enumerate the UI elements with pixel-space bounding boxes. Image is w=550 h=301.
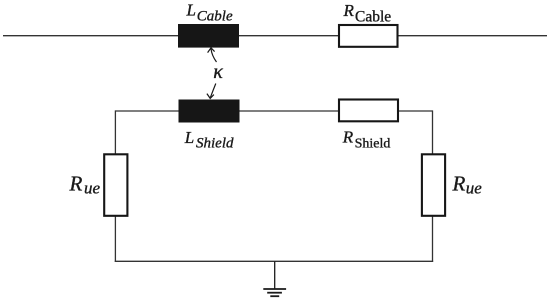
svg-text:Cable: Cable <box>355 9 391 26</box>
resistor R_Cable <box>339 25 398 47</box>
coupling arrow to L_Shield <box>207 84 216 99</box>
ground <box>263 261 286 296</box>
wire shield row left segment <box>115 110 178 112</box>
inductor L_Cable <box>178 24 239 48</box>
svg-text:Cable: Cable <box>197 8 233 24</box>
svg-text:R: R <box>452 172 466 196</box>
wire top conductor right segment <box>398 35 548 37</box>
wire left branch upper <box>114 110 116 154</box>
svg-text:Shield: Shield <box>196 136 234 152</box>
wire left branch lower <box>114 216 116 262</box>
svg-text:R: R <box>342 127 354 146</box>
svg-text:L: L <box>186 0 196 19</box>
wire top conductor middle segment <box>239 35 339 37</box>
wire right branch lower <box>432 216 434 262</box>
svg-text:R: R <box>343 1 355 20</box>
wire right branch upper <box>432 110 434 154</box>
svg-text:κ: κ <box>213 61 223 83</box>
resistor R_ue left <box>104 154 127 216</box>
wire shield row right segment <box>398 110 433 112</box>
coupling arrow to L_Cable <box>208 48 217 62</box>
svg-text:L: L <box>184 128 194 147</box>
wire bottom conductor <box>115 260 433 262</box>
svg-text:Shield: Shield <box>355 136 391 151</box>
resistor R_Shield <box>339 100 398 122</box>
svg-text:ue: ue <box>84 178 101 197</box>
svg-text:R: R <box>69 172 83 196</box>
svg-text:ue: ue <box>466 178 483 197</box>
inductor L_Shield <box>179 100 240 123</box>
resistor R_ue right <box>422 154 445 216</box>
wire shield row middle segment <box>239 110 339 112</box>
wire top conductor left segment <box>3 35 179 37</box>
